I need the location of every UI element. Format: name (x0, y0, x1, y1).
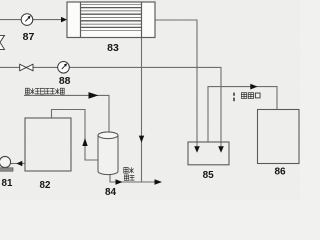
svg-text:82: 82 (40, 180, 51, 191)
svg-text:81: 81 (2, 178, 13, 189)
svg-text:86: 86 (274, 167, 286, 178)
svg-text:84: 84 (105, 187, 117, 198)
svg-text:87: 87 (23, 31, 35, 43)
svg-text:85: 85 (203, 170, 215, 181)
svg-text:83: 83 (107, 42, 119, 54)
svg-text:88: 88 (59, 75, 71, 87)
